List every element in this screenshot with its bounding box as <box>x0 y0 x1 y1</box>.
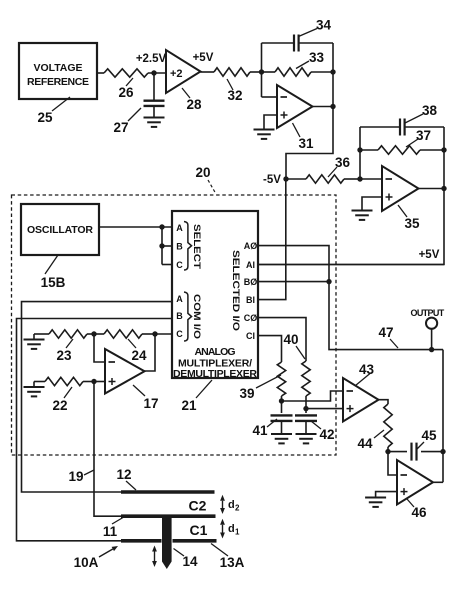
label 45 leader <box>416 428 437 450</box>
resistor R33 <box>262 68 334 76</box>
svg-text:AI: AI <box>246 260 255 270</box>
label 32 leader <box>227 79 243 103</box>
label 23 leader <box>56 339 73 363</box>
wire to select C <box>162 264 172 266</box>
svg-text:ANALOG: ANALOG <box>195 346 236 358</box>
svg-text:AØ: AØ <box>244 241 258 251</box>
capacitor plate 12 <box>121 490 215 494</box>
d1 dimension arrow <box>220 519 225 539</box>
label 40 leader <box>283 332 305 359</box>
node R32/R33 <box>259 69 264 74</box>
wire node39 to 43 minus <box>282 391 344 401</box>
svg-text:39: 39 <box>239 386 254 401</box>
capacitor C27 <box>144 73 165 118</box>
selected io label <box>231 250 241 331</box>
wire R32 to node <box>250 71 262 73</box>
svg-text:38: 38 <box>422 103 438 118</box>
wire osc to select A <box>99 226 172 228</box>
label 14 leader <box>174 549 198 570</box>
label 44 leader <box>357 430 384 451</box>
wire 46 plus to ground <box>376 492 397 498</box>
svg-text:BØ: BØ <box>244 277 258 287</box>
wire R44 to node <box>385 447 390 454</box>
svg-text:32: 32 <box>227 88 242 103</box>
svg-text:+2.5V: +2.5V <box>136 53 167 65</box>
wire +5V rail down <box>258 189 444 265</box>
oscillator box 15B <box>21 204 99 255</box>
wire feedback top right <box>299 42 333 44</box>
svg-text:2: 2 <box>235 504 240 513</box>
capacitor C34 <box>294 35 299 52</box>
resistor R23 <box>49 330 87 338</box>
svg-text:BI: BI <box>246 295 255 305</box>
label 47 leader <box>378 325 398 348</box>
svg-text:40: 40 <box>283 332 298 347</box>
label 31 leader <box>293 123 314 151</box>
capacitor C42 <box>295 409 317 434</box>
wire gnd to R23 <box>34 333 49 335</box>
svg-text:+5V: +5V <box>419 249 440 261</box>
op-amp U31 <box>277 85 313 128</box>
label C1 <box>190 522 208 538</box>
wire R26 to node <box>148 72 166 74</box>
svg-text:26: 26 <box>118 85 134 100</box>
label 25 leader <box>37 97 70 125</box>
label 34 leader <box>299 18 332 37</box>
wire R40 to node <box>303 396 308 411</box>
resistor R26 <box>104 69 148 77</box>
ground for C42 <box>296 434 317 443</box>
label 13A leader <box>211 544 245 571</box>
wire 24 node to chip C <box>155 333 172 335</box>
wire R39 to node <box>279 396 284 404</box>
op-amp U46 <box>397 460 433 505</box>
pin label B1 <box>246 295 255 305</box>
wire node44 to cap 45 <box>388 451 407 453</box>
svg-text:C2: C2 <box>189 498 207 514</box>
label 15B leader <box>41 255 66 290</box>
svg-text:C: C <box>176 329 183 339</box>
op-amp U35 <box>382 166 419 211</box>
op-amp 28 gain +2 <box>166 50 201 93</box>
svg-text:17: 17 <box>143 396 158 411</box>
op-amp U17 <box>105 349 145 394</box>
ground for R23 <box>24 334 45 349</box>
svg-text:13A: 13A <box>220 555 245 570</box>
resistor R32 <box>214 68 250 76</box>
select pin letters <box>176 223 183 270</box>
select brace <box>184 222 192 271</box>
svg-text:+2: +2 <box>170 68 183 80</box>
svg-text:B: B <box>176 311 183 321</box>
wire select vertical <box>159 224 164 264</box>
wire 31 output <box>313 104 336 109</box>
svg-text:-5V: -5V <box>263 174 281 186</box>
svg-text:11: 11 <box>103 524 118 539</box>
svg-text:OUTPUT: OUTPUT <box>411 308 445 318</box>
svg-text:VOLTAGE: VOLTAGE <box>34 62 83 74</box>
wire C0 down <box>258 318 306 361</box>
svg-text:25: 25 <box>37 110 53 125</box>
wire B1 to -5V <box>258 179 286 300</box>
wire com B to bottom plate <box>17 319 173 541</box>
svg-text:31: 31 <box>298 136 314 151</box>
label 11 leader <box>103 518 123 540</box>
svg-text:47: 47 <box>378 325 393 340</box>
d1 label <box>228 523 240 537</box>
label 36 leader <box>328 155 350 177</box>
analog multiplexer/demultiplexer chip 21 <box>172 211 258 380</box>
label 37 leader <box>406 128 431 147</box>
pin label C0 <box>244 313 258 323</box>
svg-text:SELECTED I/O: SELECTED I/O <box>231 250 241 331</box>
svg-text:A: A <box>176 294 183 304</box>
ground for R22 <box>24 382 45 397</box>
label 33 leader <box>296 50 324 69</box>
resistor R39 <box>277 362 285 396</box>
resistor R24 <box>94 330 158 338</box>
label 42 leader <box>311 421 335 442</box>
capacitor C38 <box>400 119 405 136</box>
svg-text:14: 14 <box>182 554 198 569</box>
svg-text:44: 44 <box>357 436 373 451</box>
label 41 leader <box>252 419 277 438</box>
wire A1 +5V <box>258 264 444 266</box>
wire cap45 to rail <box>421 449 446 454</box>
svg-text:20: 20 <box>195 165 210 180</box>
node -5V <box>263 174 289 186</box>
wire 35 feedback top right <box>405 126 444 128</box>
wire 19 plate 11 <box>94 382 121 517</box>
capacitor C41 <box>271 401 293 434</box>
pin label B0 <box>244 277 258 287</box>
svg-text:22: 22 <box>52 398 67 413</box>
svg-text:45: 45 <box>421 428 437 443</box>
svg-text:DEMULTIPLEXER: DEMULTIPLEXER <box>173 368 257 380</box>
capacitor plate 13A right <box>173 539 217 543</box>
label 24 leader <box>128 339 147 363</box>
svg-text:35: 35 <box>404 216 420 231</box>
wire -5V to R36 <box>286 178 306 180</box>
com io label <box>192 294 202 339</box>
wire 35 minus <box>360 178 382 180</box>
com io brace <box>184 292 192 341</box>
svg-text:24: 24 <box>131 348 147 363</box>
wire 28 out <box>201 71 215 73</box>
wire box to R26 <box>97 72 104 74</box>
svg-text:37: 37 <box>416 128 431 143</box>
ground for C27 <box>144 118 165 127</box>
svg-text:28: 28 <box>186 97 202 112</box>
svg-text:43: 43 <box>359 362 375 377</box>
op-amp U43 <box>343 378 379 422</box>
wire R36 to node <box>344 178 360 180</box>
wire R23 to node <box>87 331 97 336</box>
label 12 leader <box>116 467 136 490</box>
wire 31 minus <box>262 96 278 98</box>
wire A0 to output line 47 <box>258 246 443 350</box>
wire feedback top left <box>262 42 294 44</box>
svg-text:C: C <box>176 260 183 270</box>
svg-text:REFERENCE: REFERENCE <box>27 76 89 88</box>
label 10A arrow <box>74 546 118 570</box>
svg-text:1: 1 <box>235 528 240 537</box>
svg-text:36: 36 <box>335 155 351 170</box>
wire C1 down <box>258 336 282 362</box>
wire 35 feedback top left <box>360 126 399 128</box>
svg-text:33: 33 <box>309 50 325 65</box>
svg-text:COM I/O: COM I/O <box>192 294 202 339</box>
label 46 leader <box>407 499 427 520</box>
label 19 leader <box>68 469 94 484</box>
d2 label <box>228 499 240 513</box>
wire 46 output <box>433 481 443 483</box>
+5V label right <box>419 249 440 261</box>
select label <box>192 224 202 270</box>
d2 dimension arrow <box>220 495 225 514</box>
travel arrow <box>152 546 157 568</box>
svg-text:OSCILLATOR: OSCILLATOR <box>27 224 93 236</box>
wire 46 minus <box>388 452 397 475</box>
label 38 leader <box>405 103 437 123</box>
ground for 46 <box>365 498 386 507</box>
resistor R37 <box>360 146 444 154</box>
pin label A1 <box>246 260 255 270</box>
wire 17 output feedback <box>145 334 156 371</box>
wire 43 output <box>379 400 389 404</box>
node +2.5V <box>136 53 167 76</box>
svg-text:d: d <box>228 499 235 511</box>
resistor R44 <box>384 404 392 447</box>
label 17 leader <box>133 385 159 411</box>
label 21 leader <box>181 380 212 413</box>
svg-text:CI: CI <box>246 331 255 341</box>
label 35 leader <box>398 205 420 231</box>
svg-text:A: A <box>176 223 183 233</box>
wire feedback left vertical <box>261 43 263 97</box>
ground for 31 <box>254 130 275 139</box>
+5V label top <box>193 52 214 64</box>
svg-text:46: 46 <box>411 505 427 520</box>
svg-text:27: 27 <box>113 120 128 135</box>
wire feedback right vertical <box>330 43 335 107</box>
svg-text:19: 19 <box>68 469 83 484</box>
svg-text:B: B <box>176 242 183 252</box>
resistor R22 <box>45 377 83 385</box>
svg-text:21: 21 <box>181 398 197 413</box>
com io pin letters <box>176 294 183 339</box>
label 43 leader <box>356 362 375 386</box>
node 35 minus <box>357 176 362 181</box>
wire 35 feedback left vertical <box>357 127 362 179</box>
wire 17 plus <box>94 381 105 383</box>
ground for C41 <box>271 434 292 443</box>
ground for 35 <box>352 211 373 220</box>
probe 14 <box>162 515 172 570</box>
label C2 <box>189 498 207 514</box>
svg-text:23: 23 <box>56 348 72 363</box>
capacitor plate 10A left <box>121 539 162 543</box>
label 28 leader <box>182 88 202 112</box>
svg-text:+5V: +5V <box>193 52 214 64</box>
output terminal <box>411 308 445 352</box>
wire node40 to 43 plus <box>306 408 343 410</box>
wire output rail <box>442 350 444 483</box>
label 20 leader <box>195 165 216 194</box>
svg-text:41: 41 <box>252 423 268 438</box>
svg-text:d: d <box>228 523 235 535</box>
pin label A0 <box>244 241 258 251</box>
wire 31 plus to ground <box>264 115 277 130</box>
label 39 leader <box>239 375 281 401</box>
svg-text:34: 34 <box>316 18 332 33</box>
voltage reference box 25 <box>19 43 97 99</box>
label 22 leader <box>52 387 72 413</box>
label 26 leader <box>118 78 134 100</box>
svg-text:42: 42 <box>319 427 334 442</box>
dashed box 20 <box>12 195 337 455</box>
wire 35 feedback right vertical <box>441 127 446 189</box>
wire 31 out down to -5V node <box>286 107 333 180</box>
capacitor plate 11 <box>121 514 216 518</box>
svg-text:10A: 10A <box>74 555 99 570</box>
resistor R40 <box>302 361 310 396</box>
resistor R36 <box>306 175 344 183</box>
svg-text:SELECT: SELECT <box>192 224 202 270</box>
wire 17 minus <box>94 334 105 362</box>
wire to select B <box>162 245 172 247</box>
wire gnd to R22 <box>34 381 45 383</box>
wire B0 <box>258 279 332 284</box>
capacitor C45 <box>412 443 417 461</box>
wire 35 output <box>419 186 447 191</box>
pin label C1 <box>246 331 255 341</box>
wire 35 plus to ground <box>362 197 382 211</box>
label 27 leader <box>113 108 141 135</box>
svg-text:15B: 15B <box>41 275 66 290</box>
svg-text:12: 12 <box>116 467 131 482</box>
wire R22 to node <box>83 379 97 384</box>
wire com A to top plate <box>22 302 173 492</box>
svg-text:C1: C1 <box>190 522 208 538</box>
svg-text:CØ: CØ <box>244 313 258 323</box>
